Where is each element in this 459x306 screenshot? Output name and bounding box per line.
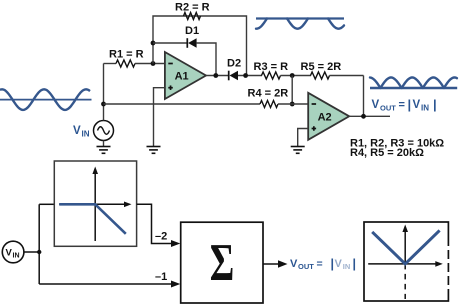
absolute block watermark gaps on right edge xyxy=(447,246,449,298)
resistor R4 xyxy=(248,88,309,108)
summer block sigma xyxy=(181,222,263,303)
svg-text:R5 = 2R: R5 = 2R xyxy=(301,61,342,73)
ground (VIN) xyxy=(97,147,111,154)
wire D1 branch xyxy=(153,42,187,44)
node R4 / A2 inverting xyxy=(290,102,295,107)
svg-text:D2: D2 xyxy=(227,58,241,70)
rectifier transfer curve xyxy=(59,204,126,234)
svg-text:V: V xyxy=(335,258,343,270)
svg-text:IN: IN xyxy=(82,130,90,139)
output full-wave waveform xyxy=(370,78,457,89)
op-amp A1 xyxy=(165,52,206,99)
svg-text:R4 = 2R: R4 = 2R xyxy=(248,88,289,100)
node D2 / R2 / R3 junction xyxy=(243,73,248,78)
wire rectifier block to summer xyxy=(137,204,181,247)
wire VIN vertical xyxy=(103,64,105,121)
ground (A1) xyxy=(147,147,161,154)
diode D1 xyxy=(185,25,199,48)
wire VIN to ground xyxy=(103,141,105,147)
block: half-wave rectifier transfer function xyxy=(54,161,136,246)
wire A2 output xyxy=(349,115,390,117)
wire VIN to R4 (long horizontal) xyxy=(104,103,261,105)
node A2 output / feedback xyxy=(361,114,366,119)
svg-text:OUT: OUT xyxy=(298,262,314,271)
svg-text:V: V xyxy=(6,248,13,259)
absolute block vertical axis xyxy=(402,225,408,300)
svg-text:–2: –2 xyxy=(155,231,167,243)
wire lower branch to summer xyxy=(39,281,180,288)
wire VIN out xyxy=(24,251,39,253)
svg-text:|: | xyxy=(353,257,357,271)
wire A1 output xyxy=(206,75,229,77)
resistor R5 xyxy=(301,61,364,79)
resistor R1 xyxy=(104,49,165,68)
wire A1 noninverting to ground xyxy=(154,88,165,147)
block: absolute value transfer function xyxy=(364,222,448,301)
input sine waveform xyxy=(0,89,92,110)
svg-text:R3 = R: R3 = R xyxy=(254,61,289,73)
svg-text:R4, R5 = 20kΩ: R4, R5 = 20kΩ xyxy=(350,147,424,159)
node VIN / R4 tap xyxy=(101,102,106,107)
svg-text:=: = xyxy=(317,258,323,270)
source VIN xyxy=(94,121,114,141)
wire D2 to R3 xyxy=(238,75,262,77)
node A1 inverting input xyxy=(151,61,156,66)
resistor R3 xyxy=(254,61,312,79)
svg-text:|: | xyxy=(433,97,437,112)
svg-text:IN: IN xyxy=(421,104,429,113)
wire summer output xyxy=(263,260,288,267)
svg-text:V: V xyxy=(290,258,298,270)
svg-text:V: V xyxy=(413,99,421,111)
node D1 tap xyxy=(151,41,156,46)
absolute value transfer curve xyxy=(372,230,439,264)
wire R2 feedback loop xyxy=(153,16,247,76)
svg-text:|: | xyxy=(331,257,335,271)
svg-text:R2 = R: R2 = R xyxy=(175,2,210,14)
node R3 / R5 / R4 junction xyxy=(290,73,295,78)
svg-text:=: = xyxy=(399,99,405,111)
label VIN (source) xyxy=(73,125,90,139)
svg-text:IN: IN xyxy=(13,253,20,260)
diode D2 xyxy=(227,58,241,81)
wire D1 to A1 output xyxy=(197,43,216,76)
resistor R2 xyxy=(175,2,210,20)
op-amp A2 xyxy=(308,93,349,140)
absolute block horizontal axis xyxy=(368,261,443,267)
wire junction to R4 xyxy=(291,76,293,105)
svg-text:V: V xyxy=(73,125,81,137)
svg-text:IN: IN xyxy=(343,262,351,271)
wire R5 feedback vertical xyxy=(363,76,365,117)
svg-text:V: V xyxy=(372,99,380,111)
svg-text:–1: –1 xyxy=(155,271,167,283)
node VIN branch xyxy=(37,250,41,254)
wire branch vertical xyxy=(38,204,40,284)
source VIN (block diagram) xyxy=(2,241,24,263)
svg-text:OUT: OUT xyxy=(380,104,396,113)
svg-text:A1: A1 xyxy=(175,70,189,82)
label VOUT = |VIN| (block diagram) xyxy=(290,257,356,271)
node A1 output xyxy=(213,73,218,78)
rectifier block horizontal axis xyxy=(59,202,131,208)
rectifier block vertical axis xyxy=(92,167,98,242)
svg-text:D1: D1 xyxy=(185,25,199,37)
svg-text:A2: A2 xyxy=(318,111,332,123)
svg-text:Σ: Σ xyxy=(210,234,235,292)
ground (A2) xyxy=(291,147,305,154)
half-wave waveform at A1 output xyxy=(256,19,344,29)
label resistor values xyxy=(350,137,444,159)
svg-text:R1 = R: R1 = R xyxy=(109,49,144,61)
label VOUT = |VIN| (circuit output) xyxy=(372,97,437,113)
wire A2 noninverting to ground xyxy=(298,129,309,147)
svg-text:|: | xyxy=(408,97,412,112)
wire upper branch into rectifier block xyxy=(39,203,54,205)
